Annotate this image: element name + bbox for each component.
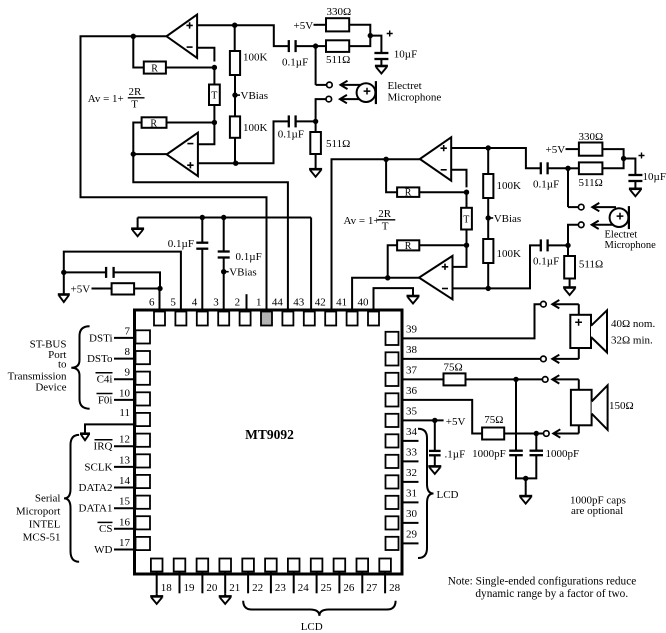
- arrow speaker2 top lead: [552, 378, 579, 380]
- label VBias ch2: [488, 217, 493, 219]
- svg-text:0.1µF: 0.1µF: [168, 238, 194, 250]
- wire node B2 to cap C5: [624, 159, 636, 176]
- wire C4 to node MIC2+: [548, 167, 568, 169]
- 100K ladder ch1: wire node A1 down: [234, 25, 236, 51]
- svg-text:40: 40: [358, 297, 370, 309]
- node MIC2- junction: [565, 243, 570, 248]
- pin 26 (bottom): [334, 559, 346, 572]
- pin 1 (top): [261, 312, 272, 326]
- wire pin 11 to ground arrow: [85, 424, 136, 433]
- pin 10 (left, F0i): [136, 392, 151, 405]
- capacitor C4 0.1uF (ch2 mic+ coupling): [540, 162, 542, 174]
- svg-text:+5V: +5V: [294, 20, 314, 32]
- label VBias ch1: [235, 94, 240, 96]
- capacitor C3 0.1uF (ch1 mic- coupling): [288, 115, 290, 127]
- op-amp U1A (channel 1 top, output left): [167, 15, 198, 58]
- svg-text:Device: Device: [35, 382, 66, 394]
- arrow speaker1 bottom lead: [552, 358, 579, 360]
- svg-text:34: 34: [406, 426, 418, 438]
- svg-text:VBias: VBias: [494, 213, 522, 225]
- wire pin 24 stub: [293, 572, 295, 594]
- resistor R (ch1 top feedback): [144, 62, 166, 74]
- svg-text:IRQ: IRQ: [94, 441, 113, 453]
- wire C6 right lead to node MIC2-: [548, 244, 568, 246]
- wire T2 top lead: [466, 192, 468, 208]
- mic jack terminal top (ch1): [327, 82, 333, 88]
- svg-text:32: 32: [406, 467, 417, 479]
- wire arrow into speaker1 top: [578, 304, 580, 315]
- svg-text:2: 2: [235, 297, 241, 309]
- svg-text:7: 7: [125, 325, 131, 337]
- mic jack terminal bottom (ch2): [578, 222, 584, 228]
- pin 36 (right): [386, 393, 399, 406]
- svg-text:31: 31: [406, 487, 417, 499]
- wire 75ohm to node E1: [466, 378, 517, 380]
- svg-text:10: 10: [119, 387, 131, 399]
- pin 33 (right): [386, 455, 399, 468]
- wire join to ground: [525, 478, 527, 496]
- wire 511 ch2 right lead to node B2: [602, 159, 623, 169]
- svg-text:511Ω: 511Ω: [326, 138, 350, 150]
- arrow ch1 mic bottom lead: [340, 98, 363, 100]
- pin 30 (right): [386, 516, 399, 529]
- pin 9 (left, C4i): [136, 372, 151, 385]
- resistor 75ohm (pin 37): [444, 373, 466, 385]
- resistor R ch2 top feedback: [397, 187, 419, 197]
- pin 20 (bottom): [197, 559, 209, 572]
- ground (1000pF caps): [519, 495, 532, 498]
- ground (pin 11): [80, 432, 90, 435]
- node OUT2B junction: [385, 275, 390, 280]
- svg-text:+5V: +5V: [71, 284, 91, 296]
- pin 19 (bottom): [174, 559, 186, 572]
- wire U2A output: [386, 158, 420, 160]
- wire T1 top lead: [213, 68, 215, 85]
- speaker LS2 150ohm: [571, 390, 592, 426]
- wire node MIC2- to 511 shunt ch2: [567, 245, 569, 256]
- svg-text:15: 15: [119, 496, 131, 508]
- svg-text:75Ω: 75Ω: [444, 362, 463, 374]
- svg-text:511Ω: 511Ω: [579, 259, 603, 271]
- svg-text:LCD: LCD: [301, 621, 323, 633]
- pin 4 (top): [197, 312, 208, 326]
- wire node E1 down to cap C10: [515, 379, 517, 450]
- electret microphone MK1 (ch1): [357, 83, 376, 102]
- svg-text:R: R: [405, 241, 412, 252]
- wire R ch2 top left lead to output: [386, 159, 397, 192]
- brace Serial Microport group (pins 12-17): [64, 435, 79, 562]
- speaker2 jack terminal top: [542, 377, 548, 383]
- wire 100K ch2 upper to VBias: [487, 198, 489, 239]
- wire C1 to node MIC1+: [296, 45, 315, 47]
- svg-text:36: 36: [406, 385, 418, 397]
- node VBias pin3: [221, 269, 226, 274]
- svg-text:38: 38: [406, 344, 418, 356]
- wire 330 ch2 right lead to node B2: [602, 149, 623, 158]
- pin 13 (left, SCLK): [136, 454, 151, 467]
- node E1 junction: [513, 377, 518, 382]
- ground (ch2 511 shunt): [563, 286, 576, 289]
- pin 37 (right): [386, 373, 399, 386]
- op-amp U2A (channel 2 top): [420, 137, 451, 180]
- wire U2B + input up to node T2bot: [453, 245, 467, 267]
- svg-text:14: 14: [119, 475, 131, 487]
- wire U1B + input to node D1: [198, 162, 236, 164]
- svg-text:+5V: +5V: [546, 144, 566, 156]
- wire pin 23 stub: [270, 572, 272, 594]
- wire pin 22 stub: [247, 572, 249, 594]
- node pin6 junction: [157, 286, 162, 291]
- svg-text:to: to: [58, 358, 67, 370]
- wire C3 right lead to node MIC1-: [296, 120, 315, 122]
- arrow ch2 mic bottom lead: [592, 224, 616, 226]
- wire ch1 top output to IC pin 1: [81, 36, 267, 311]
- svg-text:0.1µF: 0.1µF: [533, 256, 559, 268]
- wire C3 left lead jog to + input line: [236, 121, 288, 163]
- IC U3 MT9092 body: [135, 310, 403, 574]
- resistor R ch2 bottom feedback: [397, 240, 419, 250]
- wire node MIC1+ down to jack top: [315, 46, 317, 85]
- pin 35 (right): [386, 414, 399, 427]
- wire U2A - input jog to node T2top: [451, 170, 466, 188]
- capacitor C6 0.1uF (ch2 mic- coupling): [540, 239, 542, 251]
- wire IC pin 40 to ground: [374, 288, 414, 311]
- svg-text:27: 27: [366, 582, 378, 594]
- svg-text:8: 8: [125, 346, 131, 358]
- pin 42 (top): [325, 312, 336, 326]
- svg-text:MT9092: MT9092: [245, 427, 294, 442]
- resistor 511ohm ch2 series: [579, 162, 603, 174]
- svg-text:VBias: VBias: [229, 267, 257, 279]
- svg-text:Microphone: Microphone: [388, 92, 442, 104]
- svg-text:18: 18: [161, 582, 173, 594]
- wire 100K upper to VBias node: [234, 75, 236, 116]
- capacitor C11 1000pF: [530, 450, 544, 452]
- wire C9 to pin6 node: [114, 272, 160, 288]
- wire C6 left lead jog down to - input line: [453, 245, 541, 288]
- pin 34 (right): [386, 434, 399, 447]
- node bus/pin3 junction: [221, 215, 226, 220]
- svg-text:DATA2: DATA2: [79, 482, 113, 494]
- svg-text:16: 16: [119, 516, 131, 528]
- node D2 junction (ladder bottom): [486, 286, 491, 291]
- wire pin 19 stub: [179, 572, 181, 594]
- svg-text:DSTi: DSTi: [89, 332, 112, 344]
- arrow speaker2 bottom lead: [553, 433, 579, 435]
- brace ST-BUS group (pins 7-10): [71, 326, 89, 408]
- wire pin 39 to speaker jack top: [402, 304, 540, 338]
- resistor 511ohm (ch1 series): [326, 40, 349, 52]
- op-amp U1B (channel 1 bottom): [167, 133, 198, 176]
- wire speaker1 bottom lead: [578, 348, 580, 359]
- svg-text:T: T: [463, 215, 469, 226]
- resistor 511ohm ch2 shunt (vertical): [564, 256, 575, 279]
- svg-text:dynamic range by a factor of t: dynamic range by a factor of two.: [475, 588, 628, 600]
- node OUT1B junction: [131, 151, 136, 156]
- wire 511 shunt ch2 to ground: [569, 279, 571, 288]
- wire node E1 to jack: [516, 378, 542, 380]
- svg-text:Av = 1+: Av = 1+: [88, 93, 124, 105]
- svg-text:22: 22: [252, 582, 263, 594]
- svg-text:33: 33: [406, 446, 418, 458]
- svg-text:12: 12: [119, 434, 130, 446]
- wire node MIC1- to 511 shunt: [315, 121, 317, 132]
- capacitor C5 10uF (ch2 bias filter): [628, 174, 642, 176]
- node +5V filter junction: [61, 270, 66, 275]
- node T2bot junction: [464, 243, 469, 248]
- wire pin 33 stub: [402, 460, 419, 462]
- svg-text:21: 21: [229, 582, 240, 594]
- wire R ch2 top right lead: [419, 191, 466, 193]
- node MIC1- junction: [313, 119, 318, 124]
- wire pin 27 stub: [361, 572, 363, 594]
- wire to mic jack top terminal: [316, 84, 327, 86]
- svg-text:R: R: [151, 64, 158, 75]
- svg-text:20: 20: [206, 582, 218, 594]
- svg-text:Av = 1+: Av = 1+: [344, 215, 380, 227]
- svg-text:44: 44: [272, 297, 284, 309]
- wire U1A + input to node A1: [197, 24, 235, 26]
- ground (bus left end): [137, 218, 139, 229]
- ground (pin 35 cap): [428, 465, 441, 468]
- speaker jack terminal bottom: [541, 356, 547, 362]
- wire pin 26 stub: [338, 572, 340, 594]
- svg-text:100K: 100K: [497, 248, 522, 260]
- wire T1 bottom lead: [213, 105, 215, 123]
- resistor 100K ch1 upper: [230, 51, 240, 75]
- wire pin 18 stub: [156, 572, 158, 594]
- resistor 100K ch2 lower: [483, 239, 493, 263]
- svg-text:T: T: [211, 91, 217, 102]
- svg-text:DSTo: DSTo: [87, 353, 113, 365]
- pin 16 (left, CS): [136, 516, 151, 529]
- svg-text:T: T: [131, 99, 138, 111]
- node B2 junction: [621, 156, 626, 161]
- wire C2 to ground: [380, 59, 382, 66]
- capacitor C2 10uF (ch1 bias filter): [374, 52, 388, 54]
- node A2 junction: [486, 145, 491, 150]
- resistor 330ohm (ch1 mic bias): [326, 18, 349, 31]
- mic jack terminal top (ch2): [578, 204, 584, 210]
- svg-text:13: 13: [119, 454, 131, 466]
- wire bus down to cap C7: [201, 218, 203, 243]
- wire pin 32 stub: [402, 481, 419, 483]
- node D1 junction (ladder bottom / U1B + input): [233, 161, 238, 166]
- svg-text:30: 30: [406, 508, 418, 520]
- wire jack bottom to node MIC1-: [316, 99, 329, 121]
- wire to ground (+5V filter): [63, 272, 65, 294]
- svg-text:+5V: +5V: [446, 416, 466, 428]
- wire +5V to series resistor: [92, 288, 112, 290]
- pin 11 (left): [136, 413, 151, 426]
- pin 3 (top): [218, 312, 229, 326]
- svg-text:75Ω: 75Ω: [484, 414, 503, 426]
- node OUT1A junction: [131, 34, 136, 39]
- wire C11 to gnd join: [526, 455, 537, 478]
- wire pin 28 stub: [384, 572, 386, 594]
- node A1 junction (+ input / 100K ladder top): [232, 23, 237, 28]
- wire pin 25 stub: [316, 572, 318, 594]
- wire U1B output to node OUT1B: [133, 153, 166, 155]
- wire pin 31 stub: [402, 501, 419, 503]
- wire +5V to R 330: [314, 24, 327, 26]
- ground (+5V filter): [58, 293, 70, 296]
- wire U1B - input jog up to node T1bot: [198, 123, 215, 145]
- wire ch1 bottom output to IC pin 44: [133, 154, 288, 311]
- svg-text:26: 26: [343, 582, 355, 594]
- resistor T ch1 (gain set): [209, 85, 220, 106]
- svg-text:Microphone: Microphone: [605, 240, 657, 251]
- pin 40 (top): [368, 312, 379, 326]
- svg-text:41: 41: [336, 297, 347, 309]
- svg-text:Electret: Electret: [605, 230, 638, 241]
- svg-text:39: 39: [406, 323, 418, 335]
- wire 511 shunt to ground: [315, 154, 317, 169]
- pin 21 (bottom): [219, 559, 231, 572]
- resistor R (ch1 bottom feedback): [142, 117, 167, 128]
- capacitor C7 0.1uF (pin 4 decoupling): [196, 242, 208, 244]
- svg-text:511Ω: 511Ω: [326, 54, 350, 66]
- pin 6 (top): [154, 312, 165, 326]
- wire ch2 top output to IC pin 42: [332, 159, 387, 311]
- plus polarity mark C2: [387, 31, 393, 37]
- speaker2 jack terminal bottom: [544, 431, 550, 437]
- wire 511 right lead to node B1: [349, 36, 370, 47]
- ground (pin 21): [224, 593, 226, 596]
- node pin35 +5V junction: [432, 418, 437, 423]
- svg-text:DATA1: DATA1: [79, 503, 113, 515]
- svg-text:LCD: LCD: [437, 489, 459, 501]
- node T2top junction: [464, 190, 469, 195]
- svg-text:CS: CS: [99, 523, 112, 535]
- svg-text:WD: WD: [94, 544, 112, 556]
- svg-text:330Ω: 330Ω: [327, 6, 352, 18]
- wire pin 20 stub: [201, 572, 203, 594]
- svg-text:25: 25: [321, 582, 333, 594]
- wire 75ohm to node E2: [504, 433, 536, 435]
- node B1 junction: [368, 33, 373, 38]
- svg-text:2R: 2R: [378, 208, 392, 220]
- pin 5 (top): [175, 312, 186, 326]
- mic jack terminal bottom (ch1): [326, 96, 332, 102]
- pin 25 (bottom): [311, 559, 323, 572]
- capacitor C1 0.1uF (ch1 mic+ coupling): [288, 40, 290, 52]
- wire +5V to 330 ch2: [566, 148, 579, 150]
- node MIC1+ junction: [313, 43, 318, 48]
- svg-text:0.1µF: 0.1µF: [236, 251, 262, 263]
- wire 100K lower to node D1: [234, 138, 236, 163]
- wire pin 5 to ground rail: [64, 252, 181, 312]
- pin 29 (right): [386, 537, 399, 550]
- svg-text:10µF: 10µF: [643, 171, 666, 183]
- node VBias ch1: [232, 92, 237, 97]
- wire node A2 jog to cap C4: [488, 148, 540, 168]
- svg-text:24: 24: [298, 582, 310, 594]
- wire T2 bottom lead: [466, 230, 468, 246]
- svg-text:10µF: 10µF: [394, 49, 417, 61]
- arrow speaker1 top lead: [552, 303, 579, 305]
- wire C8 to VBias node pin 3: [223, 258, 225, 312]
- node OUT2A junction: [383, 157, 388, 162]
- svg-text:6: 6: [149, 297, 155, 309]
- wire 100K ch2 lower to - line: [487, 263, 489, 288]
- svg-text:32Ω min.: 32Ω min.: [611, 335, 653, 347]
- op-amp U2B (channel 2 bottom): [419, 256, 453, 299]
- pin 17 (left, WD): [136, 537, 151, 550]
- wire pin 34 stub: [402, 440, 419, 442]
- svg-text:0.1µF: 0.1µF: [533, 179, 559, 191]
- arrow ch2 mic top lead: [592, 206, 616, 208]
- node E2 junction: [534, 431, 539, 436]
- wire arrow into speaker2 top: [578, 379, 580, 389]
- capacitor C8 0.1uF (VBias decoupling): [218, 250, 230, 252]
- svg-text:40Ω nom.: 40Ω nom.: [611, 318, 655, 330]
- 100K ladder ch2: wire node A2 down: [487, 148, 489, 174]
- wire 511 ch2 left lead: [568, 167, 579, 169]
- wire C10 to gnd join: [516, 455, 526, 478]
- svg-text:29: 29: [406, 528, 418, 540]
- pin 7 (left, DSTi): [136, 330, 151, 343]
- svg-text:19: 19: [184, 582, 196, 594]
- speaker jack terminal top: [541, 301, 547, 307]
- node VBias ch2: [486, 215, 491, 220]
- svg-text:SCLK: SCLK: [84, 461, 112, 473]
- resistor 75ohm (pin 36): [482, 428, 504, 440]
- wire U2B output: [388, 277, 419, 279]
- pin 32 (right): [386, 475, 399, 488]
- resistor 511ohm ch1 shunt (vertical): [310, 132, 321, 154]
- wire C12 to ground: [434, 455, 436, 466]
- svg-text:11: 11: [119, 407, 130, 419]
- svg-text:R: R: [405, 188, 412, 199]
- svg-text:Microport: Microport: [16, 506, 61, 518]
- node gnd join junction: [523, 476, 528, 481]
- wire C7 to IC pin 4: [201, 249, 203, 312]
- svg-text:are optional: are optional: [571, 505, 623, 517]
- svg-text:MCS-51: MCS-51: [23, 532, 61, 544]
- ground (pin 40): [407, 295, 420, 298]
- wire R ch2 bottom left lead to output: [388, 245, 397, 278]
- svg-text:1000pF: 1000pF: [472, 448, 506, 460]
- pin 39 (right): [386, 332, 399, 345]
- svg-text:Electret: Electret: [388, 80, 422, 92]
- wire arrow into speaker2 bottom: [578, 425, 580, 433]
- svg-text:.1µF: .1µF: [445, 449, 466, 461]
- resistor 330ohm ch2: [579, 143, 603, 156]
- wire U1A - input jog to node T1top: [197, 48, 214, 62]
- label VBias pin3: [224, 271, 229, 273]
- svg-text:3: 3: [213, 297, 219, 309]
- pin 28 (bottom): [379, 559, 391, 572]
- pin 15 (left, DATA1): [136, 496, 151, 509]
- svg-text:100K: 100K: [497, 180, 522, 192]
- pin 44 (top): [282, 312, 293, 326]
- node T1top junction: [212, 65, 217, 70]
- svg-text:0.1µF: 0.1µF: [282, 57, 308, 69]
- ground (ch2 10uF): [629, 188, 642, 191]
- svg-text:37: 37: [406, 364, 418, 376]
- wire U1A output to node OUT1A: [133, 35, 166, 37]
- wire node E2 down to cap C11: [535, 434, 537, 451]
- svg-text:35: 35: [406, 405, 418, 417]
- pin 27 (bottom): [357, 559, 369, 572]
- wire pin 30 stub: [402, 522, 419, 524]
- resistor (+5V series, unlabeled): [112, 283, 135, 294]
- svg-text:511Ω: 511Ω: [579, 177, 603, 189]
- svg-text:100K: 100K: [243, 122, 268, 134]
- svg-text:R: R: [150, 118, 157, 129]
- wire pin 29 stub: [402, 542, 419, 544]
